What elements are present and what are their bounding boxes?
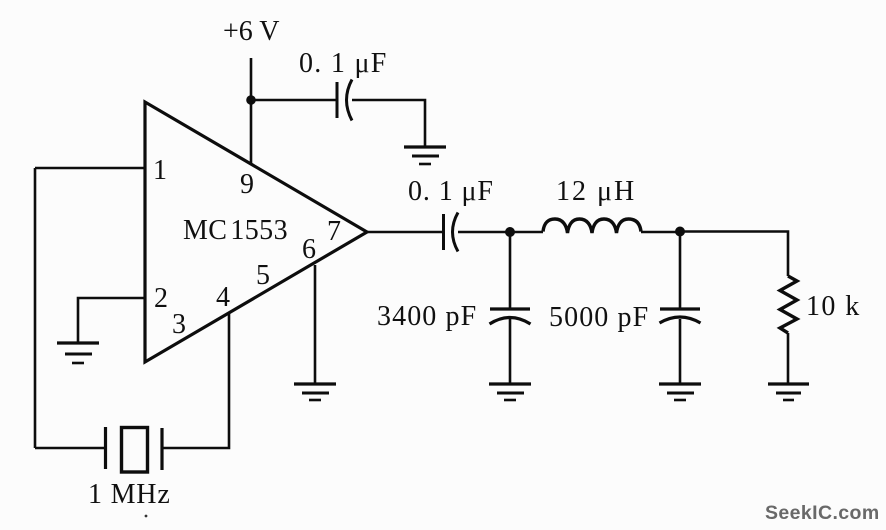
wire C2 to node A: [458, 231, 510, 234]
capacitor C2 0.1uF straight plate: [442, 214, 445, 250]
node A dot: [505, 227, 515, 237]
wire op-amp output: [367, 231, 443, 234]
wire node A down to C3: [509, 232, 512, 309]
wire node A to inductor: [510, 231, 543, 234]
capacitor C3 curved bottom plate: [490, 318, 531, 325]
svg-text:12 μH: 12 μH: [556, 176, 636, 207]
wire C4 to ground: [679, 319, 682, 384]
svg-text:1: 1: [153, 155, 167, 186]
svg-text:0. 1 μF: 0. 1 μF: [408, 176, 494, 207]
svg-text:3400 pF: 3400 pF: [377, 301, 477, 332]
capacitor C4 curved bottom plate: [660, 317, 701, 323]
wire left vertical feedback: [34, 168, 37, 448]
svg-text:3: 3: [172, 309, 186, 340]
svg-text:6: 6: [302, 234, 316, 265]
node B dot: [675, 227, 685, 237]
speck dot: [145, 515, 148, 518]
wire pin 6 ground drop: [314, 265, 317, 384]
ground (bypass cap): [404, 147, 446, 164]
svg-text:10 k: 10 k: [806, 291, 861, 322]
svg-text:2: 2: [154, 283, 168, 314]
svg-text:MC1553: MC1553: [183, 215, 288, 246]
svg-text:1 MHz: 1 MHz: [88, 479, 171, 510]
node junction V+: [246, 95, 256, 105]
svg-text:7: 7: [327, 216, 341, 247]
wire V+ down to pin 9: [250, 100, 253, 164]
wire node B down to C4: [679, 232, 682, 309]
ground (pin 6): [294, 384, 336, 400]
ground (C4): [659, 384, 701, 400]
resistor R1 10k: [780, 276, 797, 333]
svg-text:5: 5: [256, 260, 270, 291]
ground (pin 2): [57, 343, 99, 363]
ground (C3): [489, 384, 531, 400]
svg-text:SeekIC.com: SeekIC.com: [765, 502, 880, 524]
crystal Y1 body: [122, 428, 148, 473]
capacitor C1 curved plate: [347, 80, 353, 121]
wire inductor to node B: [641, 231, 680, 234]
wire resistor to ground: [787, 333, 790, 384]
svg-text:0. 1 μF: 0. 1 μF: [299, 48, 388, 79]
wire +6V lead: [250, 58, 253, 100]
crystal Y1 left electrode: [104, 427, 107, 469]
capacitor C4 5000pF top plate: [660, 307, 700, 310]
ground (R1): [768, 384, 809, 400]
wire node B to resistor: [680, 232, 788, 277]
wire crystal right lead to pin 4: [164, 313, 230, 448]
op-amp U1 MC1553 triangle: [145, 102, 367, 362]
inductor L1 12uH: [543, 219, 641, 233]
wire C1 to ground drop: [352, 100, 425, 147]
wire pin 2 stub: [78, 298, 145, 343]
crystal Y1 right electrode: [160, 428, 163, 470]
capacitor C1 0.1uF bypass : straight plate: [336, 82, 339, 118]
wire pin 1 feedback: [35, 167, 145, 170]
svg-text:9: 9: [240, 169, 254, 200]
wire crystal left lead: [35, 447, 104, 450]
svg-text:+6 V: +6 V: [223, 16, 280, 47]
svg-text:4: 4: [216, 282, 230, 313]
wire C3 to ground: [509, 319, 512, 384]
wire V+ to bypass capacitor: [251, 99, 337, 102]
capacitor C2 curved plate: [453, 213, 459, 252]
capacitor C3 3400pF top plate: [490, 307, 530, 310]
svg-text:5000 pF: 5000 pF: [549, 302, 649, 333]
